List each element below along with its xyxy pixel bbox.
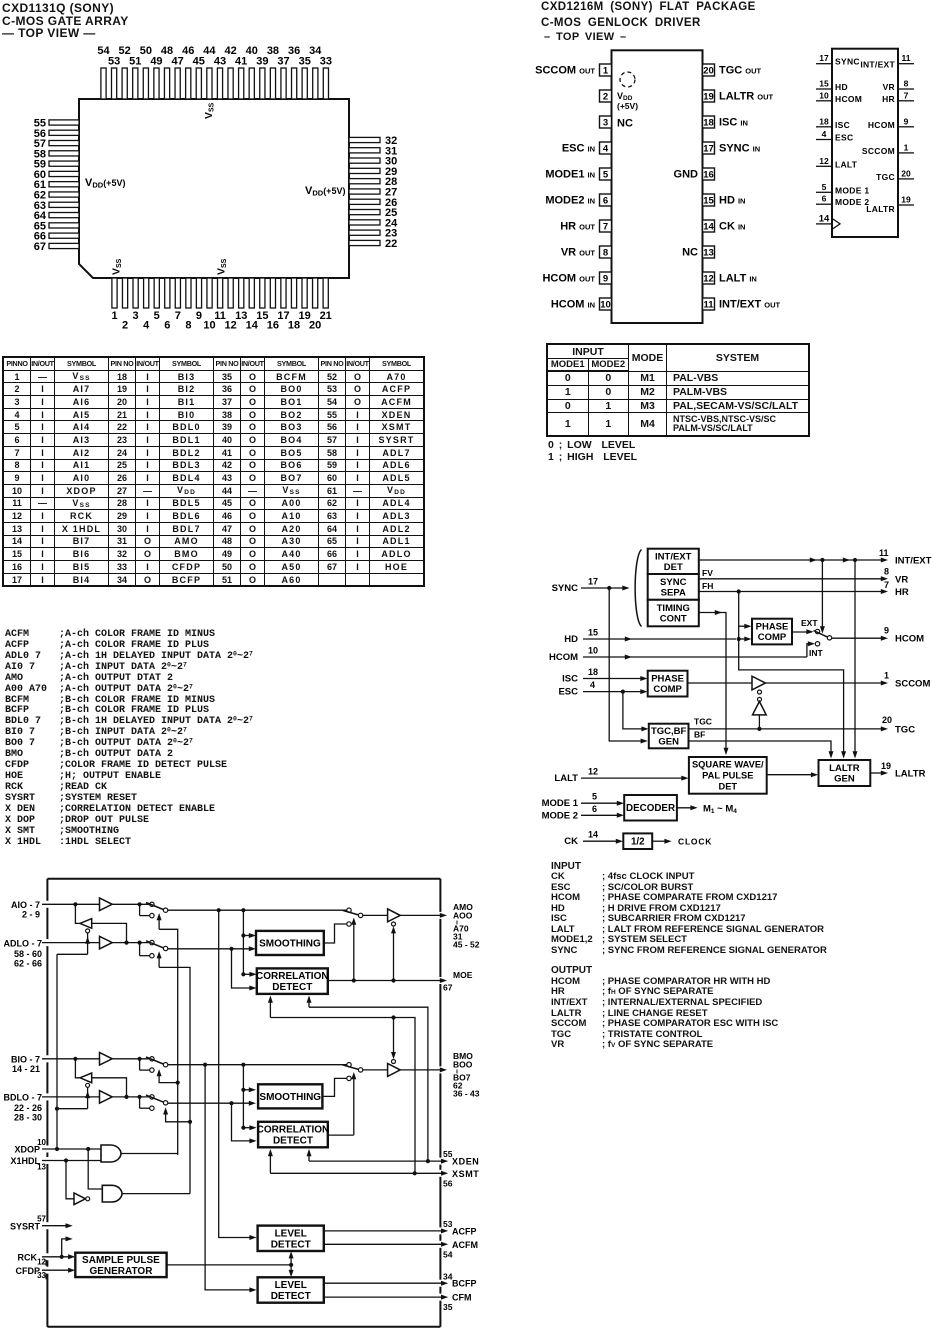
wire square wave to LALTR gen bbox=[767, 772, 818, 777]
svg-text:HCOM: HCOM bbox=[549, 652, 578, 663]
wire ESC to TGC BF gen bbox=[621, 690, 649, 732]
node CFDP pin33 bbox=[16, 1266, 76, 1280]
wire A data to level detect 1 bbox=[219, 910, 257, 1240]
svg-text:TGC OUT: TGC OUT bbox=[719, 65, 762, 77]
wire B tap to smoothing upper bbox=[241, 1065, 256, 1128]
svg-text:17: 17 bbox=[588, 577, 598, 587]
buffer B input bbox=[100, 1053, 113, 1066]
switch A1 common bbox=[146, 903, 168, 913]
label AMO outputs bbox=[453, 902, 480, 950]
block TGC BF GEN bbox=[649, 724, 689, 749]
svg-text:12: 12 bbox=[703, 274, 714, 285]
svg-text:22: 22 bbox=[385, 238, 397, 250]
svg-text:14 - 21: 14 - 21 bbox=[12, 1064, 40, 1074]
svg-text:53: 53 bbox=[108, 56, 120, 68]
node HD pin15 bbox=[564, 628, 736, 646]
wire tristate to TGC line bbox=[757, 715, 761, 731]
svg-text:2: 2 bbox=[122, 320, 128, 332]
svg-text:INT: INT bbox=[809, 648, 824, 658]
svg-text:11: 11 bbox=[879, 548, 889, 558]
svg-text:TGC: TGC bbox=[895, 724, 915, 735]
wire sample pulse to level detects bbox=[167, 1251, 294, 1277]
svg-text:SYNC: SYNC bbox=[552, 583, 579, 594]
svg-text:8: 8 bbox=[884, 567, 889, 577]
wire B delayed to smoothing bbox=[168, 1101, 256, 1106]
block TIMING CONT bbox=[648, 600, 699, 627]
svg-text:41: 41 bbox=[235, 56, 247, 68]
switch B2 common bbox=[146, 1095, 168, 1105]
wire inverter B input bbox=[92, 1078, 127, 1097]
svg-text:HR: HR bbox=[882, 94, 895, 104]
svg-text:20: 20 bbox=[882, 715, 892, 725]
gate array outer border bbox=[47, 879, 440, 1327]
block CORRELATION DETECT A bbox=[256, 968, 329, 994]
svg-text:2: 2 bbox=[603, 92, 608, 103]
svg-text:19: 19 bbox=[901, 195, 911, 205]
wire B tap to correlation upper bbox=[241, 1125, 256, 1130]
node XDOP pin10 bbox=[14, 1138, 101, 1154]
switch B out throw1 bbox=[347, 1063, 351, 1067]
switch B out throw2 bbox=[347, 1076, 351, 1080]
svg-text:SMOOTHING: SMOOTHING bbox=[259, 938, 321, 949]
logic symbol right pins bbox=[860, 53, 914, 214]
node MODE1 pin5 bbox=[542, 792, 624, 810]
svg-text:DECODER: DECODER bbox=[626, 803, 675, 814]
svg-text:5: 5 bbox=[592, 792, 597, 802]
svg-text:LALT: LALT bbox=[554, 773, 578, 784]
svg-text:6: 6 bbox=[603, 196, 608, 207]
svg-text:11: 11 bbox=[703, 300, 714, 311]
switch B2 throw1 bbox=[150, 1095, 154, 1099]
wire buffer A to switch bbox=[73, 902, 149, 906]
wire correlation A enable taps bbox=[268, 996, 312, 1018]
logic symbol left pins bbox=[816, 53, 869, 207]
node CK pin14 bbox=[564, 830, 623, 848]
node X1HDL pin13 bbox=[10, 1156, 101, 1171]
svg-text:SYNC: SYNC bbox=[835, 57, 860, 67]
switch EXT contact bbox=[801, 618, 820, 634]
svg-text:VDD(+5V): VDD(+5V) bbox=[305, 185, 345, 198]
svg-text:10: 10 bbox=[819, 90, 829, 100]
Vdd label left bbox=[85, 177, 125, 190]
svg-text:47: 47 bbox=[172, 56, 184, 68]
wire BCFP pin34 bbox=[324, 1271, 477, 1288]
svg-text:57: 57 bbox=[37, 1214, 46, 1223]
svg-text:SYNC IN: SYNC IN bbox=[719, 143, 760, 155]
wire FH junction to phase comp bbox=[737, 592, 752, 642]
svg-text:LALTR: LALTR bbox=[829, 763, 860, 774]
svg-text:BCFP: BCFP bbox=[452, 1279, 477, 1289]
wire BMO output pins bbox=[400, 1067, 447, 1072]
svg-text:INT/EXT OUT: INT/EXT OUT bbox=[719, 299, 780, 311]
DIP pin1 index dashed circle bbox=[620, 72, 635, 87]
DIP GND label pin16 bbox=[674, 169, 699, 181]
svg-text:SYSRT: SYSRT bbox=[10, 1221, 41, 1231]
inverter B delayed feedback bbox=[80, 1073, 92, 1083]
svg-text:ISC: ISC bbox=[562, 674, 578, 685]
wire to correlation A lower bbox=[232, 949, 257, 991]
svg-text:6: 6 bbox=[822, 194, 827, 204]
wire smoothing A out to switch bbox=[324, 924, 347, 943]
QFP bottom pin numbers bbox=[111, 310, 331, 332]
wire inverter B enable bbox=[55, 1087, 90, 1110]
wire to output buffer B bbox=[363, 1069, 388, 1071]
node SYNC pin17 bbox=[552, 577, 630, 595]
svg-text:1: 1 bbox=[603, 66, 609, 77]
svg-text:ACFP: ACFP bbox=[452, 1226, 477, 1236]
svg-text:MODE 2: MODE 2 bbox=[542, 810, 578, 821]
block CORRELATION DETECT B bbox=[257, 1122, 330, 1148]
svg-text:HD IN: HD IN bbox=[719, 195, 745, 207]
enable bubble buffer A bbox=[392, 922, 396, 926]
svg-text:NC: NC bbox=[617, 118, 633, 130]
and gate G2 bbox=[102, 1185, 122, 1202]
svg-text:36 - 43: 36 - 43 bbox=[453, 1089, 480, 1099]
svg-text:35: 35 bbox=[299, 56, 311, 68]
wire B data to level detect 2 bbox=[205, 1065, 257, 1293]
svg-text:TGC: TGC bbox=[876, 172, 895, 182]
svg-text:HCOM: HCOM bbox=[895, 634, 924, 645]
svg-text:SCCOM: SCCOM bbox=[862, 146, 895, 156]
svg-text:2 - 9: 2 - 9 bbox=[22, 910, 40, 920]
svg-text:SMOOTHING: SMOOTHING bbox=[259, 1092, 321, 1103]
svg-text:51: 51 bbox=[129, 56, 141, 68]
svg-text:ACFM: ACFM bbox=[452, 1240, 478, 1250]
svg-text:VR: VR bbox=[883, 82, 895, 92]
svg-text:LEVEL: LEVEL bbox=[275, 1228, 307, 1239]
svg-text:BF: BF bbox=[694, 730, 705, 740]
svg-text:TGC: TGC bbox=[694, 717, 712, 727]
svg-text:GEN: GEN bbox=[834, 774, 855, 785]
wire inverter A enable bbox=[57, 933, 90, 1148]
switch B1 throw1 bbox=[150, 1057, 154, 1061]
svg-text:ESC: ESC bbox=[558, 687, 578, 698]
wire RCK branch arrow bbox=[62, 1236, 73, 1256]
svg-text:1: 1 bbox=[884, 671, 889, 681]
svg-text:8: 8 bbox=[904, 79, 909, 89]
wire clock out bbox=[652, 837, 712, 847]
svg-text:INT/EXT: INT/EXT bbox=[860, 59, 895, 69]
QFP left pin numbers bbox=[34, 118, 47, 253]
svg-text:45 - 52: 45 - 52 bbox=[453, 940, 480, 950]
block SMOOTHING B bbox=[258, 1084, 322, 1108]
svg-text:10: 10 bbox=[37, 1138, 46, 1147]
wire SYNC to BF gen bbox=[609, 588, 648, 744]
inverter upward bbox=[753, 701, 767, 715]
svg-text:X1HDL: X1HDL bbox=[10, 1156, 40, 1166]
svg-text:INT/EXT: INT/EXT bbox=[895, 556, 932, 567]
wire ACFM pin54 bbox=[324, 1240, 478, 1260]
svg-text:HCOM: HCOM bbox=[868, 120, 895, 130]
svg-text:18: 18 bbox=[819, 116, 829, 126]
wire decoder out M1-M4 bbox=[677, 803, 737, 815]
buffer B output bbox=[388, 1064, 401, 1077]
svg-text:21: 21 bbox=[320, 310, 332, 322]
wire and1 to switch actuators bbox=[157, 913, 180, 1155]
wire BF to LALTR gen bbox=[689, 730, 834, 759]
svg-text:DETECT: DETECT bbox=[273, 1136, 313, 1147]
svg-text:58 - 60: 58 - 60 bbox=[14, 949, 42, 959]
svg-text:1: 1 bbox=[111, 310, 117, 322]
svg-text:RCK: RCK bbox=[18, 1252, 38, 1262]
svg-text:HR OUT: HR OUT bbox=[560, 221, 595, 233]
svg-text:SAMPLE PULSE: SAMPLE PULSE bbox=[82, 1255, 160, 1266]
wire AMO output pins bbox=[400, 913, 447, 918]
svg-text:6: 6 bbox=[164, 320, 170, 332]
svg-text:HCOM IN: HCOM IN bbox=[551, 299, 595, 311]
svg-text:1/2: 1/2 bbox=[631, 837, 645, 848]
svg-text:MOE: MOE bbox=[453, 970, 473, 980]
inverter A delayed feedback bbox=[80, 919, 92, 929]
svg-text:19: 19 bbox=[881, 761, 891, 771]
svg-text:NC: NC bbox=[682, 247, 698, 259]
node ADLO-7 input pins 58-66 bbox=[3, 938, 99, 968]
svg-text:9: 9 bbox=[904, 116, 909, 126]
wire and2 output bbox=[122, 1193, 190, 1195]
wire X1HDL to inverter bbox=[66, 1161, 74, 1199]
QFP top pins 54-33 bbox=[101, 68, 329, 99]
svg-text:LALTR: LALTR bbox=[895, 769, 926, 780]
svg-text:TIMING: TIMING bbox=[657, 603, 690, 614]
DIP right pin labels bbox=[719, 65, 780, 311]
block SMOOTHING A bbox=[256, 931, 324, 955]
svg-text:62 - 66: 62 - 66 bbox=[14, 959, 42, 969]
svg-text:ISC: ISC bbox=[835, 120, 850, 130]
wire to correlation B lower bbox=[232, 1103, 257, 1143]
wire HCOM out pin9 bbox=[832, 626, 924, 645]
block LEVEL DETECT 2 bbox=[258, 1277, 324, 1302]
QFP package body U1 CXD1131Q bbox=[79, 99, 349, 278]
node LALT pin12 bbox=[554, 767, 688, 785]
node BIO-7 input pins 14-21 bbox=[11, 1055, 100, 1075]
svg-text:ESC: ESC bbox=[835, 133, 853, 143]
block SAMPLE PULSE GENERATOR bbox=[75, 1253, 166, 1277]
node BDLO-7 input pins 22-30 bbox=[3, 1093, 99, 1123]
svg-text:COMP: COMP bbox=[653, 684, 682, 695]
QFP top pin numbers bbox=[97, 45, 332, 68]
switch A out throw1 bbox=[347, 908, 351, 912]
svg-text:22 - 26: 22 - 26 bbox=[14, 1103, 42, 1113]
svg-text:3: 3 bbox=[133, 310, 139, 322]
wire buffer A enable bbox=[391, 926, 396, 982]
svg-text:SEPA: SEPA bbox=[661, 587, 686, 598]
wire correlation B enable taps bbox=[268, 1149, 312, 1173]
wire LALTR out pin19 bbox=[870, 761, 925, 780]
wire BIO to inverter B bbox=[75, 1059, 80, 1078]
svg-text:LALTR: LALTR bbox=[866, 204, 895, 214]
svg-text:PHASE: PHASE bbox=[651, 674, 684, 685]
svg-text:4: 4 bbox=[822, 129, 827, 139]
svg-text:4: 4 bbox=[590, 680, 595, 690]
svg-text:LEVEL: LEVEL bbox=[275, 1280, 307, 1291]
svg-text:MODE1 IN: MODE1 IN bbox=[545, 169, 595, 181]
wire INT/EXT to LALTR gen bbox=[853, 560, 858, 759]
svg-text:15: 15 bbox=[703, 196, 714, 207]
svg-text:12: 12 bbox=[588, 767, 598, 777]
Vss label top bbox=[203, 102, 216, 119]
svg-text:PAL PULSE: PAL PULSE bbox=[702, 771, 753, 781]
switch B1 throw2 bbox=[140, 1059, 154, 1073]
svg-text:20: 20 bbox=[703, 66, 714, 77]
svg-text:DETECT: DETECT bbox=[272, 982, 312, 993]
svg-text:CONT: CONT bbox=[660, 614, 687, 625]
svg-text:5: 5 bbox=[154, 310, 160, 322]
svg-text:BOO: BOO bbox=[453, 1060, 473, 1070]
svg-text:MODE 1: MODE 1 bbox=[542, 798, 579, 809]
DIP right pin boxes 20-11 bbox=[703, 64, 715, 311]
svg-text:MODE2 IN: MODE2 IN bbox=[545, 195, 595, 207]
buffer A input bbox=[100, 898, 113, 911]
svg-text:GND: GND bbox=[674, 169, 699, 181]
svg-text:8: 8 bbox=[603, 248, 608, 259]
switch arm bbox=[814, 631, 829, 638]
svg-text:AIO - 7: AIO - 7 bbox=[11, 900, 40, 910]
wire A tap to smoothing upper bbox=[241, 910, 256, 974]
inverter before and2 bbox=[74, 1193, 90, 1205]
svg-text:CK IN: CK IN bbox=[719, 221, 745, 233]
switch B1 common bbox=[146, 1057, 168, 1067]
wire HD to LALTR gen bbox=[739, 639, 846, 759]
svg-text:SCCOM: SCCOM bbox=[895, 679, 930, 690]
svg-text:14: 14 bbox=[588, 830, 598, 840]
wire buffer B delayed to switch bbox=[112, 1095, 150, 1099]
block DECODER bbox=[624, 795, 677, 821]
svg-text:DETECT: DETECT bbox=[271, 1291, 311, 1302]
svg-text:LALT: LALT bbox=[835, 159, 858, 169]
node HCOM pin10 input bbox=[549, 646, 807, 664]
wire TIMING CONT to square wave det bbox=[699, 610, 729, 755]
svg-text:5: 5 bbox=[603, 170, 609, 181]
svg-text:DET: DET bbox=[664, 562, 683, 573]
svg-text:43: 43 bbox=[214, 56, 226, 68]
svg-text:18: 18 bbox=[703, 118, 714, 129]
svg-text:TGC,BF: TGC,BF bbox=[651, 726, 687, 737]
wire XDOP to and2 bbox=[88, 1149, 102, 1189]
wire correlation A out MOE pin67 bbox=[328, 970, 473, 993]
svg-text:M1 ~ M4: M1 ~ M4 bbox=[703, 803, 737, 815]
svg-text:10: 10 bbox=[600, 300, 611, 311]
svg-text:17: 17 bbox=[819, 53, 829, 63]
svg-text:ADLO - 7: ADLO - 7 bbox=[3, 938, 42, 948]
svg-text:(+5V): (+5V) bbox=[617, 101, 638, 111]
switch A out throw2 bbox=[347, 922, 351, 926]
svg-text:54: 54 bbox=[443, 1250, 453, 1260]
svg-text:14: 14 bbox=[703, 222, 714, 233]
svg-text:LALTR OUT: LALTR OUT bbox=[719, 91, 774, 103]
svg-text:LALT IN: LALT IN bbox=[719, 273, 757, 285]
svg-text:14: 14 bbox=[819, 213, 830, 224]
Vdd label right bbox=[305, 185, 345, 198]
QFP left pins 55-67 bbox=[49, 120, 79, 249]
switch A1 throw1 bbox=[150, 902, 154, 906]
svg-text:HCOM: HCOM bbox=[835, 94, 862, 104]
svg-text:67: 67 bbox=[443, 983, 453, 993]
svg-text:49: 49 bbox=[150, 56, 162, 68]
wire switch B out actuator bbox=[351, 1072, 356, 1135]
svg-text:3: 3 bbox=[603, 118, 608, 129]
wire switch select from INT/EXT bbox=[820, 560, 825, 634]
svg-text:17: 17 bbox=[703, 144, 714, 155]
buffer B delayed bbox=[100, 1091, 113, 1104]
block LEVEL DETECT 1 bbox=[258, 1226, 324, 1251]
wire xsmt chain upper bbox=[270, 1015, 415, 1173]
buffer on SCCOM line bbox=[752, 676, 765, 690]
enable bubble inverter B bbox=[86, 1083, 90, 1087]
svg-text:SYNC: SYNC bbox=[660, 577, 687, 588]
svg-text:CFM: CFM bbox=[452, 1293, 472, 1303]
svg-text:FH: FH bbox=[702, 581, 713, 591]
wire A tap to correlation upper bbox=[241, 972, 256, 977]
svg-text:VDD(+5V): VDD(+5V) bbox=[85, 177, 125, 190]
block divider 1/2 bbox=[623, 833, 652, 849]
svg-text:6: 6 bbox=[592, 804, 597, 814]
buffer A delayed bbox=[100, 936, 113, 949]
wire buffer B to switch bbox=[73, 1057, 149, 1061]
svg-text:GEN: GEN bbox=[658, 737, 679, 748]
wire smoothing B out to switch bbox=[322, 1078, 346, 1096]
wire A data line bbox=[168, 908, 347, 912]
wire CFM pin35 bbox=[324, 1293, 472, 1312]
svg-text:12: 12 bbox=[819, 156, 829, 166]
wire correlation B out to switch bbox=[328, 1134, 354, 1136]
wire HCOM to INT contact bbox=[807, 641, 815, 657]
svg-text:1: 1 bbox=[904, 142, 909, 152]
svg-text:18: 18 bbox=[588, 667, 598, 677]
DIP left pin boxes 1-10 bbox=[600, 64, 612, 311]
svg-text:8: 8 bbox=[185, 320, 191, 332]
node SYSRT pin57 bbox=[10, 1214, 73, 1231]
wire phase comp to EXT contact bbox=[792, 629, 814, 634]
svg-text:CORRELATION: CORRELATION bbox=[257, 1125, 330, 1136]
block INT/EXT DET bbox=[648, 549, 699, 574]
switch A out common bbox=[343, 910, 363, 917]
DIP left pin labels bbox=[535, 65, 595, 311]
brace at SYNC input bbox=[635, 550, 641, 627]
logic symbol clock pin 14 bbox=[816, 213, 840, 229]
wire XSMT pin56 bbox=[270, 1169, 479, 1189]
enable bubble lower bbox=[758, 697, 762, 701]
svg-text:9: 9 bbox=[603, 274, 608, 285]
svg-text:15: 15 bbox=[588, 628, 598, 638]
svg-text:EXT: EXT bbox=[801, 618, 818, 628]
svg-text:45: 45 bbox=[193, 56, 205, 68]
svg-text:CLOCK: CLOCK bbox=[678, 837, 712, 847]
svg-text:4: 4 bbox=[603, 144, 609, 155]
svg-text:MODE 1: MODE 1 bbox=[835, 185, 869, 195]
block LALTR GEN bbox=[819, 760, 871, 786]
wire FV to VR pin8 bbox=[699, 567, 909, 586]
wire FH to HR pin7 bbox=[699, 580, 909, 598]
svg-text:COMP: COMP bbox=[758, 632, 787, 643]
node RCK pin12 bbox=[18, 1252, 76, 1266]
svg-text:MODE 2: MODE 2 bbox=[835, 197, 869, 207]
svg-text:ESC IN: ESC IN bbox=[562, 143, 595, 155]
wire A delayed to smoothing bbox=[168, 946, 256, 951]
svg-text:DET: DET bbox=[718, 782, 737, 792]
buffer A output bbox=[388, 909, 401, 922]
wire AIO to inverter A bbox=[75, 904, 80, 923]
svg-text:35: 35 bbox=[443, 1302, 453, 1312]
svg-text:FV: FV bbox=[702, 568, 713, 578]
svg-text:56: 56 bbox=[443, 1179, 453, 1189]
svg-text:10: 10 bbox=[588, 646, 598, 656]
svg-text:XSMT: XSMT bbox=[452, 1169, 479, 1179]
switch common contact bbox=[827, 636, 831, 640]
svg-text:19: 19 bbox=[703, 92, 714, 103]
wire INT/EXT out pin11 bbox=[699, 548, 932, 567]
svg-text:37: 37 bbox=[277, 56, 289, 68]
svg-text:CORRELATION: CORRELATION bbox=[256, 971, 329, 982]
